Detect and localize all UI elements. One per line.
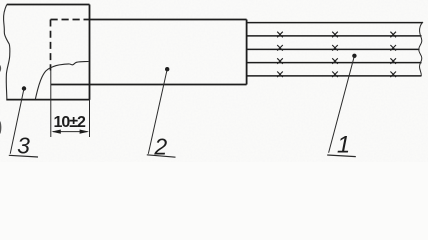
wire line 5 <box>247 75 422 77</box>
wire line 4 <box>247 62 422 64</box>
torn jacket curve <box>35 62 88 100</box>
cable jacket 3 bottom edge <box>6 99 89 101</box>
dimension arrow left <box>51 130 60 134</box>
extension line right <box>89 100 91 137</box>
twist marks column 1 <box>277 32 283 77</box>
leader line 1 <box>329 56 355 153</box>
hidden sleeve edge dashed horizontal <box>51 19 90 21</box>
svg-text:2: 2 <box>153 134 167 160</box>
twist marks column 2 <box>332 32 338 77</box>
wire line 2 <box>247 35 422 37</box>
cable jacket 3 top edge <box>7 4 90 6</box>
scan smudge left edge lower <box>0 121 1 134</box>
paper texture <box>0 0 1 1</box>
sleeve 2 top edge <box>90 19 247 21</box>
sleeve 2 right edge <box>246 20 248 85</box>
sleeve 2 bottom edge <box>51 84 247 86</box>
dimension line <box>53 131 88 133</box>
leader shelf 1 <box>327 155 356 157</box>
leader dot 1 <box>352 54 356 58</box>
svg-text:10±2: 10±2 <box>53 114 86 131</box>
wire line 1 <box>247 22 423 24</box>
hidden sleeve edge dashed vertical <box>50 20 52 71</box>
twist marks column 3 <box>390 32 396 77</box>
dimension arrow right <box>80 130 89 134</box>
scan smudge left edge upper <box>0 65 1 72</box>
leader shelf 3 <box>9 155 38 157</box>
leader dot 3 <box>22 86 26 90</box>
leader shelf 2 <box>147 155 176 157</box>
extension line left <box>50 71 52 138</box>
leader dot 2 <box>165 67 169 71</box>
wire line 3 <box>247 48 420 50</box>
cable jacket 3 right edge <box>89 5 91 100</box>
leader line 3 <box>10 89 24 154</box>
svg-text:3: 3 <box>17 133 30 159</box>
leader line 2 <box>148 69 167 154</box>
svg-text:1: 1 <box>337 131 350 158</box>
wires wavy break edge <box>419 22 423 76</box>
cable jacket 3 wavy break edge <box>4 5 10 100</box>
